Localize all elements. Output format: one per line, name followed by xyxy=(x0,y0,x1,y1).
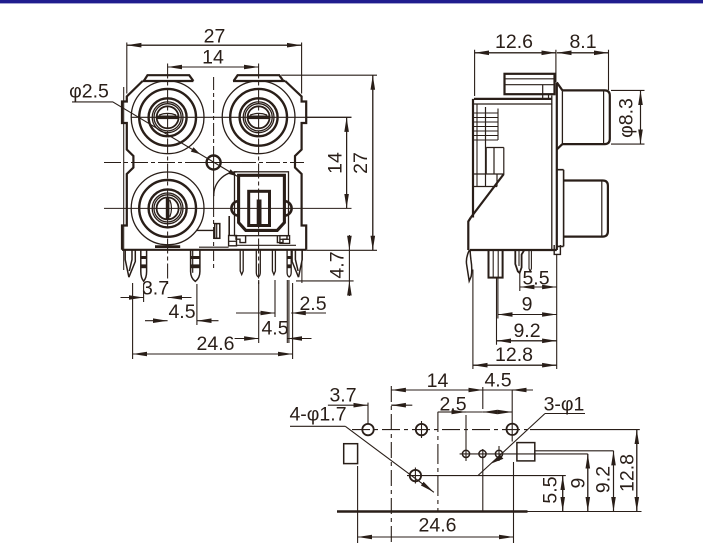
svg-text:3-φ1: 3-φ1 xyxy=(544,394,585,416)
svg-text:4.5: 4.5 xyxy=(261,318,288,340)
svg-text:12.6: 12.6 xyxy=(495,31,533,53)
svg-text:12.8: 12.8 xyxy=(617,454,639,492)
svg-text:4.5: 4.5 xyxy=(484,370,511,392)
svg-text:2.5: 2.5 xyxy=(299,293,326,315)
svg-text:5.5: 5.5 xyxy=(522,268,549,290)
svg-text:φ8.3: φ8.3 xyxy=(616,98,638,138)
svg-text:3.7: 3.7 xyxy=(142,278,169,300)
svg-text:24.6: 24.6 xyxy=(419,515,457,537)
svg-text:14: 14 xyxy=(427,370,449,392)
svg-text:14: 14 xyxy=(202,47,224,69)
svg-text:8.1: 8.1 xyxy=(569,31,596,53)
svg-text:27: 27 xyxy=(204,26,226,48)
svg-text:9: 9 xyxy=(568,478,590,489)
svg-text:φ2.5: φ2.5 xyxy=(69,81,109,103)
svg-text:2.5: 2.5 xyxy=(439,394,466,416)
svg-text:27: 27 xyxy=(350,152,372,174)
svg-text:4.7: 4.7 xyxy=(327,251,349,278)
svg-text:9.2: 9.2 xyxy=(593,466,615,493)
svg-text:9.2: 9.2 xyxy=(513,320,540,342)
svg-text:5.5: 5.5 xyxy=(540,476,562,503)
svg-text:9: 9 xyxy=(522,294,533,316)
svg-text:24.6: 24.6 xyxy=(197,333,235,355)
svg-text:4.5: 4.5 xyxy=(168,301,195,323)
svg-text:4-φ1.7: 4-φ1.7 xyxy=(289,404,346,426)
svg-text:12.8: 12.8 xyxy=(495,344,533,366)
svg-text:14: 14 xyxy=(325,152,347,174)
